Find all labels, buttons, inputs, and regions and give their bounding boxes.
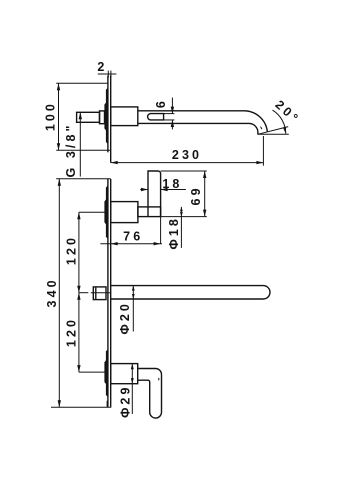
dimension 100: top extension line — [56, 82, 108, 84]
dimension 76 line — [100, 243, 162, 245]
dimension phi18 line — [180, 207, 182, 248]
svg-text:Φ18: Φ18 — [167, 216, 181, 249]
spout nut inner line — [95, 287, 97, 300]
lever bend silhouette tick — [158, 378, 160, 380]
extension line at spout outlet for 230 — [262, 136, 264, 166]
svg-text:18: 18 — [162, 177, 182, 191]
spout tube bottom outline — [138, 123, 258, 134]
dimension 2 tick marks — [107, 71, 109, 78]
escutcheon cone (top view, edge-on, filled) — [104, 88, 108, 144]
spout tube (front elevation) — [111, 286, 270, 299]
horizontal ray of angle dim — [258, 133, 289, 135]
dimension 69 arrows — [203, 171, 206, 178]
dimension 230 arrows — [111, 161, 118, 164]
dimension 69 line — [204, 171, 206, 217]
dimension 230 line — [111, 162, 264, 164]
axis extension line lower handle — [79, 371, 105, 373]
svg-text:Φ20: Φ20 — [118, 301, 132, 334]
aerator slot on spout — [148, 114, 164, 120]
svg-text:230: 230 — [172, 148, 202, 162]
upper handle body — [111, 202, 138, 223]
dimension phi18 arrows — [180, 207, 183, 212]
svg-text:69: 69 — [189, 185, 203, 205]
svg-text:6: 6 — [154, 98, 168, 108]
svg-text:100: 100 — [44, 101, 58, 131]
spout wall nut — [93, 287, 106, 300]
dimension 2 (plate thickness) line — [98, 73, 117, 75]
svg-text:76: 76 — [123, 229, 143, 243]
dimension 18 arrows — [141, 188, 148, 191]
angle arc arrow — [283, 127, 286, 134]
dimension 76 arrows — [111, 242, 118, 245]
dimension phi29 line — [131, 364, 133, 414]
dimension 18 lines — [140, 189, 148, 191]
svg-text:20°: 20° — [272, 98, 302, 127]
leader line G3/8 — [79, 112, 81, 176]
plate bottom foot — [106, 401, 108, 407]
upper handle stem — [138, 207, 161, 217]
dimension 120 lower line — [78, 293, 80, 372]
svg-text:120: 120 — [64, 235, 78, 265]
spout body (top view) — [111, 107, 138, 126]
dimension phi29 arrows — [131, 364, 134, 370]
dimension 100: arrows — [57, 83, 60, 90]
axis extension line spout — [79, 292, 88, 294]
lower handle body — [111, 364, 138, 384]
dimension 6 lines — [171, 98, 173, 114]
axis extension line upper handle — [79, 211, 105, 213]
slot extension lines — [164, 113, 175, 115]
wall line left (bottom view) — [107, 179, 109, 407]
G3/8 inlet nipple pipe — [77, 112, 100, 122]
dimension 6 arrows — [171, 107, 174, 114]
dimension 100: dim line — [58, 83, 60, 150]
dimension 340 bottom extension — [51, 406, 111, 408]
svg-text:120: 120 — [64, 317, 78, 347]
dimension 69 extensions — [161, 170, 207, 172]
dimension 120 upper arrows — [77, 212, 80, 219]
outlet cut / angled dim ray — [258, 127, 289, 135]
bend silhouette tick — [261, 127, 262, 130]
angle dim arc — [273, 110, 286, 134]
wall line left (top view) — [107, 76, 109, 153]
svg-text:340: 340 — [45, 277, 59, 307]
dimension 100: bottom extension line — [56, 149, 110, 151]
lever edge extension down to 76 dim — [160, 217, 162, 244]
dimension 340 arrows — [58, 179, 61, 186]
dimension 340 top extension — [56, 178, 110, 180]
spout tube top outline with 20deg bend — [138, 111, 268, 132]
dimension phi20 line — [132, 286, 134, 332]
lower handle lever (down position) — [138, 369, 162, 419]
leader arrow G3/8 — [79, 112, 82, 119]
wall line right / extension to 230 dim (top view) — [110, 76, 112, 163]
upper handle escutcheon cone (filled) — [104, 186, 108, 239]
inlet locknut — [100, 111, 105, 124]
svg-text:Φ29: Φ29 — [118, 384, 132, 417]
dimension 340 line — [58, 179, 60, 408]
svg-text:2: 2 — [97, 60, 107, 74]
wall line right (bottom view) — [110, 179, 112, 407]
dimension phi20 arrows — [132, 286, 135, 291]
dimension 120 upper line — [78, 212, 80, 293]
lower handle escutcheon cone (filled) — [104, 349, 108, 397]
upper handle lever (up position) — [148, 171, 161, 217]
dimension 120 lower arrows — [77, 293, 80, 300]
